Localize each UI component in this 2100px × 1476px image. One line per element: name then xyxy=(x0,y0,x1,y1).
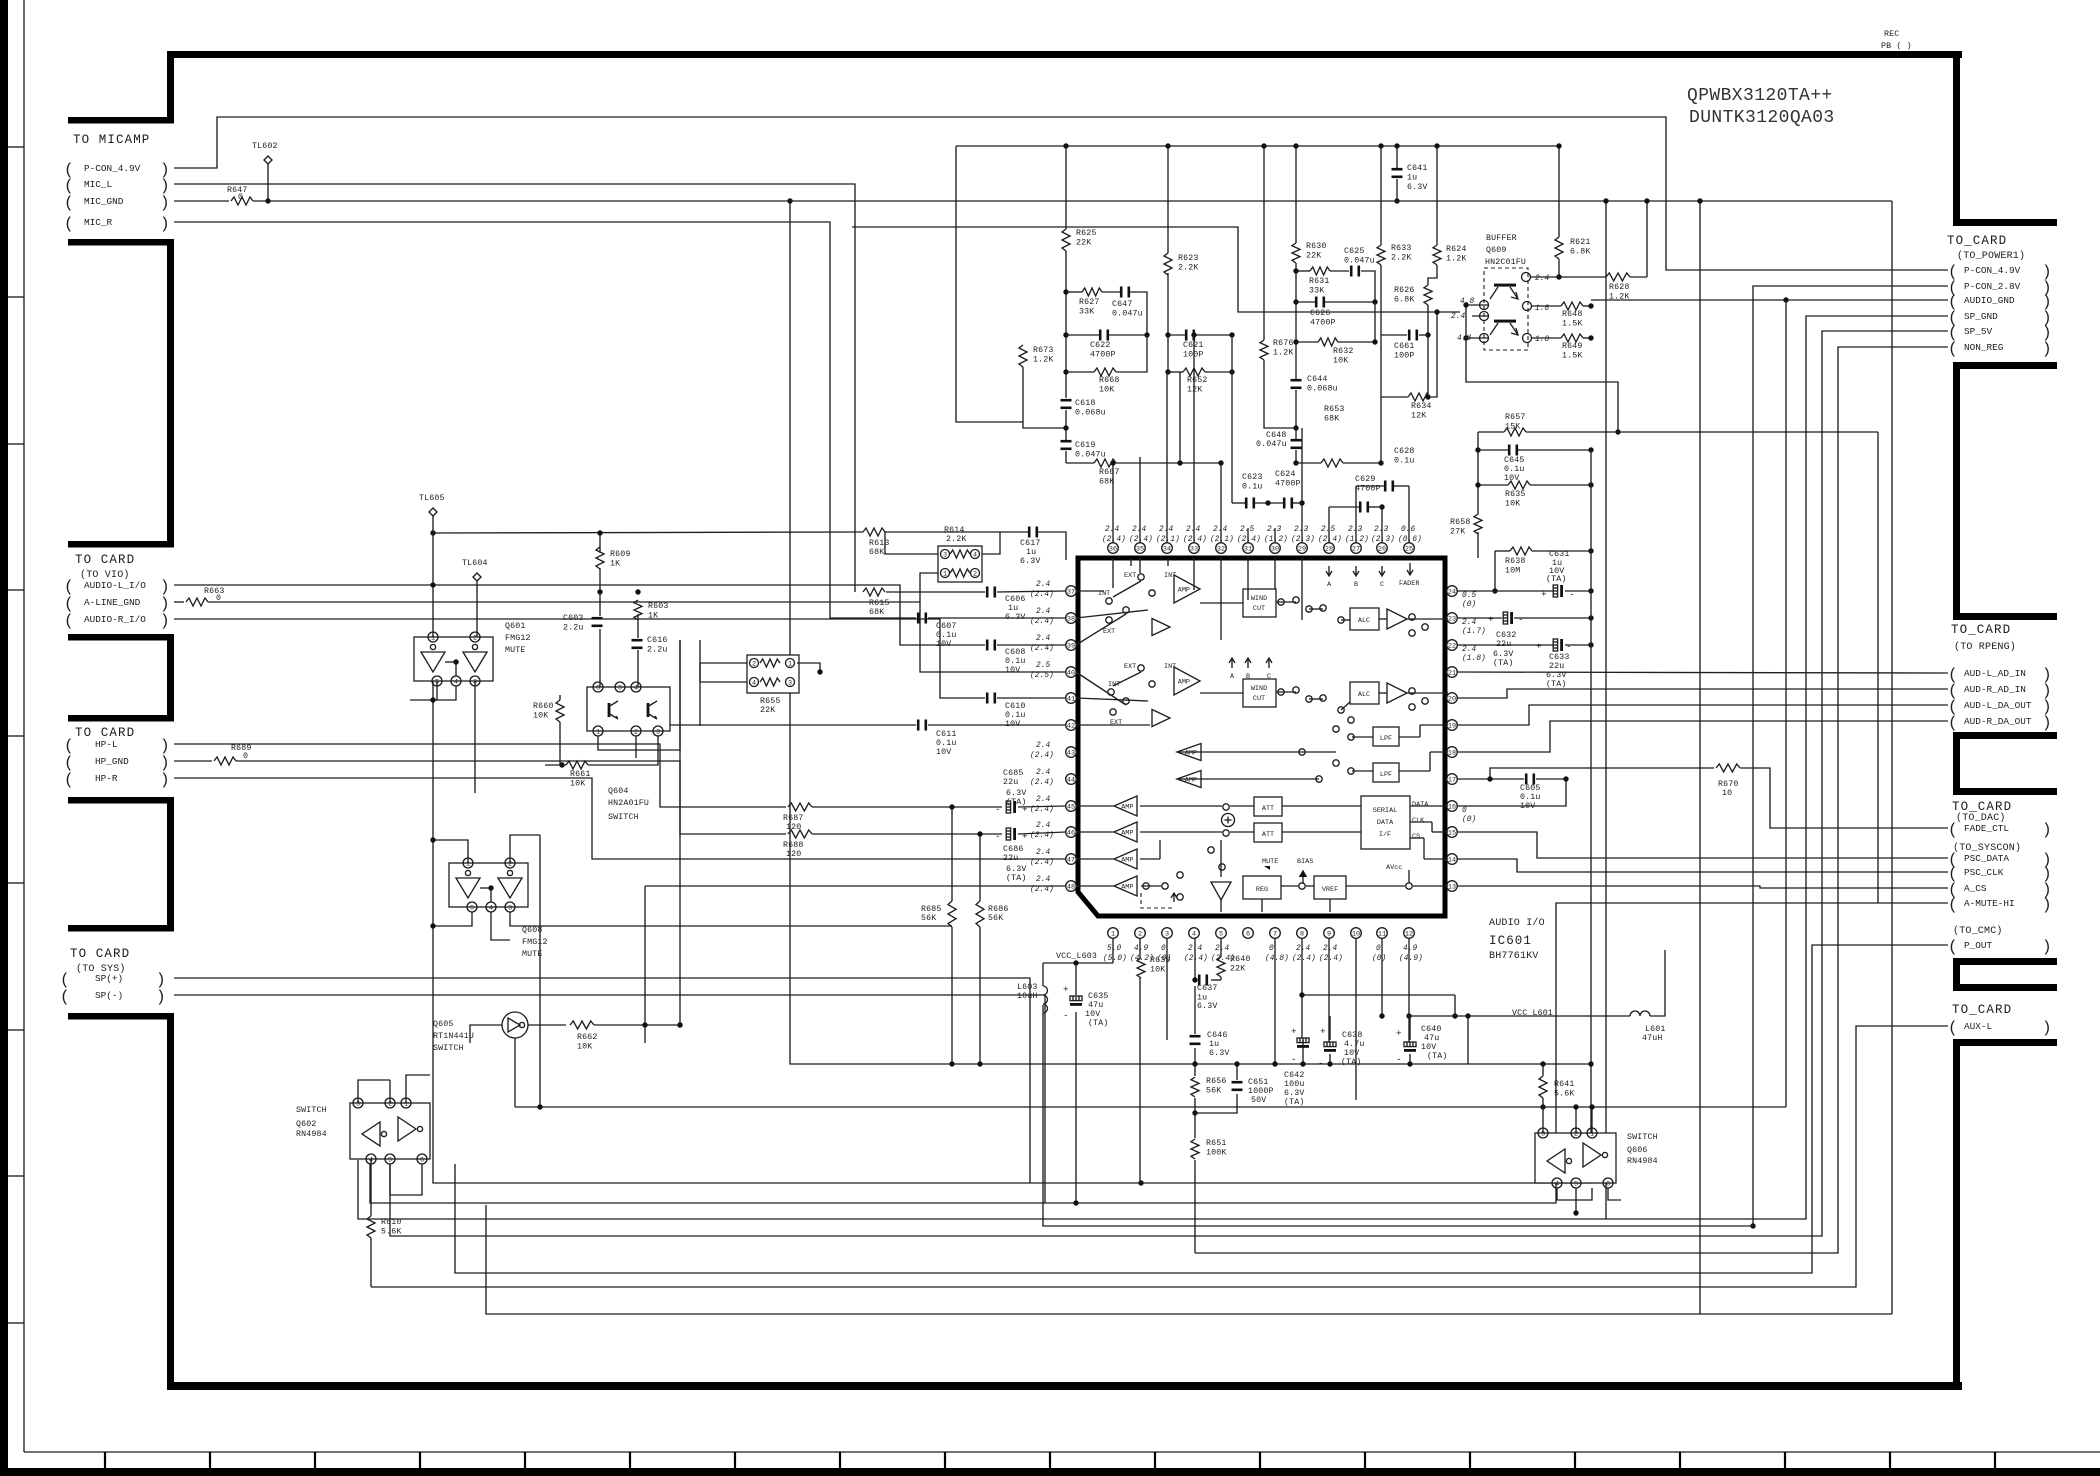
svg-text:HP-L: HP-L xyxy=(95,739,118,750)
svg-text:MIC_L: MIC_L xyxy=(84,179,113,190)
svg-text:22K: 22K xyxy=(1076,239,1091,248)
svg-text:(TA): (TA) xyxy=(1006,873,1027,883)
wire SP_5V vertical xyxy=(390,331,1948,1236)
svg-text:TL604: TL604 xyxy=(462,559,488,568)
svg-text:HN2A01FU: HN2A01FU xyxy=(608,799,649,808)
svg-text:22K: 22K xyxy=(760,706,775,715)
svg-text:31: 31 xyxy=(1244,545,1252,553)
svg-text:10K: 10K xyxy=(1333,357,1348,366)
svg-text:4.8: 4.8 xyxy=(1457,335,1472,343)
svg-text:6: 6 xyxy=(1246,930,1250,938)
resistor R632 xyxy=(1318,338,1338,346)
svg-text:4700P: 4700P xyxy=(1355,485,1381,494)
svg-text:+: + xyxy=(1536,641,1542,652)
IC601 signal labels A B C top xyxy=(1326,566,1332,576)
svg-text:): ) xyxy=(2042,938,2052,956)
capacitor C642 xyxy=(1297,1038,1309,1043)
mute pack Q601 xyxy=(414,637,493,681)
svg-text:15: 15 xyxy=(1448,829,1456,837)
capacitor C607 xyxy=(917,613,920,624)
svg-text:100P: 100P xyxy=(1394,352,1415,361)
svg-text:P-CON_2.8V: P-CON_2.8V xyxy=(1964,281,2021,292)
svg-text:10K: 10K xyxy=(1505,500,1520,509)
svg-text:CS: CS xyxy=(1412,833,1420,841)
svg-text:(2.1): (2.1) xyxy=(1156,536,1180,544)
frame right bar segments xyxy=(1953,51,1960,226)
capacitor C637 xyxy=(1198,975,1201,986)
svg-text:1: 1 xyxy=(404,1100,408,1108)
IC601 pin 12 xyxy=(1404,928,1415,939)
svg-text:(: ( xyxy=(64,194,74,212)
svg-text:R662: R662 xyxy=(577,1033,598,1042)
svg-text:): ) xyxy=(2042,821,2052,839)
resistor R633 xyxy=(1377,245,1385,265)
resistor R625 xyxy=(1062,229,1070,251)
IC601 block LPF 1 xyxy=(1373,727,1399,746)
svg-text:1.2K: 1.2K xyxy=(1033,356,1054,365)
svg-text:R685: R685 xyxy=(921,905,942,914)
resistor R663 xyxy=(186,598,208,606)
svg-text:R634: R634 xyxy=(1411,402,1432,411)
mute pack Q608 xyxy=(449,863,528,907)
svg-text:2.4: 2.4 xyxy=(1105,526,1120,534)
svg-text:Q602: Q602 xyxy=(296,1120,317,1129)
resistor R631 xyxy=(1310,267,1330,275)
svg-text:C632: C632 xyxy=(1496,631,1517,640)
svg-text:Q606: Q606 xyxy=(1627,1146,1648,1155)
wire Q605 area xyxy=(470,1025,502,1043)
svg-text:A_CS: A_CS xyxy=(1964,883,1987,894)
svg-text:(1.8): (1.8) xyxy=(1462,655,1486,663)
svg-text:(0.6): (0.6) xyxy=(1398,536,1422,544)
IC601 mute amp triangle xyxy=(1211,882,1231,900)
svg-text:9: 9 xyxy=(1327,930,1331,938)
svg-text:38: 38 xyxy=(1067,615,1075,623)
svg-text:2.4: 2.4 xyxy=(1535,275,1550,283)
svg-text:0.1u: 0.1u xyxy=(1005,657,1026,666)
IC601 pin 20 xyxy=(1447,693,1458,704)
svg-text:Q605: Q605 xyxy=(433,1020,454,1029)
svg-text:2: 2 xyxy=(634,728,638,736)
wire pin14 PSC_CLK xyxy=(1457,859,1948,872)
wire R613 row xyxy=(433,532,863,533)
resistor R641 xyxy=(1539,1076,1547,1098)
svg-text:2.5: 2.5 xyxy=(1321,526,1336,534)
svg-text:P-CON_4.9V: P-CON_4.9V xyxy=(1964,265,2021,276)
svg-text:5.0: 5.0 xyxy=(1107,945,1122,953)
svg-text:HN2C01FU: HN2C01FU xyxy=(1485,258,1526,267)
svg-text:3: 3 xyxy=(473,678,477,686)
svg-text:14: 14 xyxy=(1448,856,1456,864)
svg-text:1u: 1u xyxy=(1209,1040,1219,1049)
svg-text:5: 5 xyxy=(388,1156,392,1164)
svg-text:VCC_L603: VCC_L603 xyxy=(1056,952,1097,961)
svg-text:B: B xyxy=(1246,673,1250,681)
resistor R670 xyxy=(1716,764,1740,772)
svg-text:(2.4): (2.4) xyxy=(1030,752,1054,760)
svg-text:1.8: 1.8 xyxy=(1535,305,1550,313)
svg-text:AMP: AMP xyxy=(1178,587,1190,595)
svg-text:6.3V: 6.3V xyxy=(1006,789,1027,798)
svg-text:C633: C633 xyxy=(1549,653,1570,662)
wire HP-R to pin47 xyxy=(174,778,1066,859)
svg-text:0.047u: 0.047u xyxy=(1256,440,1287,449)
wire pin13 A_CS xyxy=(1457,886,1948,888)
svg-text:43: 43 xyxy=(1067,749,1075,757)
svg-text:(2.4): (2.4) xyxy=(1292,955,1316,963)
svg-text:68K: 68K xyxy=(869,608,884,617)
IC601 pin 3 xyxy=(1162,928,1173,939)
svg-text:10V: 10V xyxy=(1421,1043,1436,1052)
svg-text:C647: C647 xyxy=(1112,300,1133,309)
svg-text:0.1u: 0.1u xyxy=(936,631,957,640)
IC601 pin 38 xyxy=(1066,613,1077,624)
svg-text:ALC: ALC xyxy=(1358,691,1370,699)
svg-text:C635: C635 xyxy=(1088,992,1109,1001)
svg-text:10K: 10K xyxy=(577,1043,592,1052)
svg-text:HP-R: HP-R xyxy=(95,773,118,784)
resistor R609 xyxy=(596,547,604,569)
svg-text:C611: C611 xyxy=(936,730,957,739)
svg-text:(: ( xyxy=(1948,938,1958,956)
svg-text:0: 0 xyxy=(1161,945,1166,953)
resistor R660 xyxy=(556,700,564,722)
capacitor C611 xyxy=(917,720,920,731)
sheet border bottom bar xyxy=(0,1468,2100,1476)
wire R655 links xyxy=(700,662,747,664)
svg-text:(2.4): (2.4) xyxy=(1030,832,1054,840)
wire pin17 R670 FADE_CTL xyxy=(1457,778,1524,780)
svg-text:6.3V: 6.3V xyxy=(1546,671,1567,680)
svg-text:0.068u: 0.068u xyxy=(1075,409,1106,418)
svg-text:(4.9): (4.9) xyxy=(1399,955,1423,963)
capacitor C685 xyxy=(1006,801,1010,813)
cluster B R624 R626 C661 R634 xyxy=(1428,265,1437,285)
svg-text:): ) xyxy=(2042,714,2052,732)
svg-text:TO CARD: TO CARD xyxy=(70,947,130,961)
svg-text:C: C xyxy=(1380,581,1384,589)
svg-text:0.047u: 0.047u xyxy=(1112,310,1143,319)
svg-text:46: 46 xyxy=(1067,829,1075,837)
svg-text:120: 120 xyxy=(786,850,801,859)
svg-text:10V: 10V xyxy=(1520,802,1535,811)
svg-text:C618: C618 xyxy=(1075,399,1096,408)
svg-text:1: 1 xyxy=(943,570,947,578)
wire A-LINE_GND xyxy=(174,601,184,603)
IC601 amp after ALC 1 xyxy=(1387,609,1407,629)
svg-text:4: 4 xyxy=(489,904,493,912)
svg-text:2.2u: 2.2u xyxy=(647,646,668,655)
svg-text:25: 25 xyxy=(1405,545,1413,553)
svg-text:(2.4): (2.4) xyxy=(1030,886,1054,894)
svg-text:SP(+): SP(+) xyxy=(95,973,123,984)
IC601 pin 17 xyxy=(1447,774,1458,785)
svg-text:(TA): (TA) xyxy=(1546,679,1567,689)
svg-text:C625: C625 xyxy=(1344,247,1365,256)
svg-text:TO_CARD: TO_CARD xyxy=(1952,800,2012,814)
wire Q604 links xyxy=(599,533,601,553)
svg-text:R626: R626 xyxy=(1394,286,1415,295)
IC601 switch contacts xyxy=(1138,574,1144,580)
svg-text:33K: 33K xyxy=(1079,308,1094,317)
svg-text:(2.1): (2.1) xyxy=(1210,536,1234,544)
svg-text:C638: C638 xyxy=(1342,1031,1363,1040)
svg-text:32: 32 xyxy=(1217,545,1225,553)
IC601 pin 37 xyxy=(1066,586,1077,597)
svg-text:(: ( xyxy=(64,612,74,630)
svg-text:C624: C624 xyxy=(1275,470,1296,479)
IC601 pin 29 xyxy=(1297,543,1308,554)
svg-text:2: 2 xyxy=(1574,1130,1578,1138)
svg-text:22u: 22u xyxy=(1549,662,1564,671)
svg-text:47u: 47u xyxy=(1088,1001,1103,1010)
svg-text:(2.4): (2.4) xyxy=(1030,618,1054,626)
svg-text:SWITCH: SWITCH xyxy=(433,1044,464,1053)
svg-text:(: ( xyxy=(1948,896,1958,914)
IC601 pin 23 xyxy=(1447,613,1458,624)
svg-text:36: 36 xyxy=(1109,545,1117,553)
svg-text:): ) xyxy=(160,578,170,596)
svg-text:(2.4): (2.4) xyxy=(1030,859,1054,867)
svg-text:(0): (0) xyxy=(1372,955,1386,963)
VCC_L603 wires xyxy=(1043,962,1113,964)
svg-text:(: ( xyxy=(60,971,70,989)
IC601 pin 34 xyxy=(1162,543,1173,554)
wire R614 links xyxy=(885,532,938,554)
svg-text:VCC_L601: VCC_L601 xyxy=(1512,1009,1553,1018)
svg-text:SP_5V: SP_5V xyxy=(1964,326,1993,337)
svg-text:REC: REC xyxy=(1884,30,1899,39)
resistor R613 xyxy=(863,528,885,536)
svg-text:5: 5 xyxy=(435,678,439,686)
svg-text:R635: R635 xyxy=(1505,490,1526,499)
IC601 amp output 45 xyxy=(1114,796,1137,816)
svg-text:5.6K: 5.6K xyxy=(1554,1090,1575,1099)
svg-text:R641: R641 xyxy=(1554,1080,1575,1089)
wire SP_GND drop xyxy=(358,316,1948,1219)
IC601 block WIND CUT 1 xyxy=(1243,589,1276,617)
svg-text:R689: R689 xyxy=(231,744,252,753)
svg-text:2.4: 2.4 xyxy=(1215,945,1230,953)
IC601 pin 2 xyxy=(1135,928,1146,939)
svg-text:DATA: DATA xyxy=(1412,801,1429,809)
svg-text:0.1u: 0.1u xyxy=(1242,483,1263,492)
svg-text:4.9: 4.9 xyxy=(1134,945,1149,953)
svg-text:56K: 56K xyxy=(1206,1087,1221,1096)
svg-text:AMP: AMP xyxy=(1185,750,1197,758)
wire AUDIO_GND row xyxy=(1591,299,1948,301)
svg-text:EXT: EXT xyxy=(1103,628,1115,636)
transistor Q605 xyxy=(502,1012,528,1038)
svg-text:1: 1 xyxy=(1111,930,1115,938)
svg-text:2: 2 xyxy=(508,860,512,868)
svg-text:20: 20 xyxy=(1448,695,1456,703)
svg-text:2.4: 2.4 xyxy=(1462,646,1477,654)
svg-text:): ) xyxy=(2042,896,2052,914)
svg-text:6.3V: 6.3V xyxy=(1284,1089,1305,1098)
svg-text:R660: R660 xyxy=(533,702,554,711)
svg-text:(: ( xyxy=(60,988,70,1006)
svg-text:68K: 68K xyxy=(1099,478,1114,487)
svg-text:28: 28 xyxy=(1325,545,1333,553)
svg-text:5: 5 xyxy=(1574,1180,1578,1188)
svg-text:TO CARD: TO CARD xyxy=(75,553,135,567)
svg-text:AMP: AMP xyxy=(1121,830,1133,838)
svg-text:4700P: 4700P xyxy=(1275,480,1301,489)
svg-text:2.3: 2.3 xyxy=(1294,526,1309,534)
frame bottom edge xyxy=(167,1382,1962,1390)
capacitor C628 xyxy=(1384,481,1387,492)
svg-text:27: 27 xyxy=(1352,545,1360,553)
svg-text:INT: INT xyxy=(1164,572,1176,580)
svg-text:0: 0 xyxy=(238,193,243,202)
svg-text:2.4: 2.4 xyxy=(1036,769,1051,777)
wire SP(-) xyxy=(174,995,1045,1203)
svg-text:56K: 56K xyxy=(988,914,1003,923)
svg-text:FADE_CTL: FADE_CTL xyxy=(1964,823,2009,834)
frame top edge xyxy=(167,51,1962,58)
svg-text:8: 8 xyxy=(1300,930,1304,938)
svg-text:AUD-L_DA_OUT: AUD-L_DA_OUT xyxy=(1964,700,2032,711)
svg-text:VREF: VREF xyxy=(1322,886,1338,894)
svg-text:L601: L601 xyxy=(1645,1025,1666,1034)
sheet border left zone ticks xyxy=(8,146,24,148)
svg-text:SWITCH: SWITCH xyxy=(1627,1133,1658,1142)
svg-text:2.4: 2.4 xyxy=(1186,526,1201,534)
capacitor C618 xyxy=(1061,399,1072,402)
svg-text:TO_CARD: TO_CARD xyxy=(1952,1003,2012,1017)
svg-text:LPF: LPF xyxy=(1380,735,1392,743)
svg-text:CUT: CUT xyxy=(1253,605,1265,613)
resistor R634 xyxy=(1408,393,1430,401)
wire L601 top link xyxy=(1591,1107,1593,1133)
svg-text:SP(-): SP(-) xyxy=(95,990,123,1001)
svg-text:11: 11 xyxy=(1378,930,1386,938)
svg-text:BUFFER: BUFFER xyxy=(1486,234,1517,243)
svg-text:3: 3 xyxy=(656,728,660,736)
svg-text:10K: 10K xyxy=(570,780,585,789)
svg-text:0.047u: 0.047u xyxy=(1344,257,1375,266)
svg-text:42: 42 xyxy=(1067,722,1075,730)
svg-text:40: 40 xyxy=(1067,669,1075,677)
svg-text:(: ( xyxy=(64,215,74,233)
capacitor C606 xyxy=(986,587,989,598)
svg-text:A-MUTE-HI: A-MUTE-HI xyxy=(1964,898,2015,909)
IC601 amp output 44 xyxy=(1177,771,1201,788)
svg-text:(: ( xyxy=(1948,340,1958,358)
svg-text:DUNTK3120QA03: DUNTK3120QA03 xyxy=(1689,108,1835,128)
resistor R624 xyxy=(1433,245,1441,265)
capacitor C641 xyxy=(1392,168,1403,171)
wire pin15 PSC_DATA xyxy=(1457,832,1948,858)
wire C628 row xyxy=(1356,485,1384,487)
wire TL604 drop xyxy=(476,581,478,637)
svg-text:C645: C645 xyxy=(1504,456,1525,465)
svg-text:REG: REG xyxy=(1256,886,1268,894)
svg-text:): ) xyxy=(156,971,166,989)
svg-text:): ) xyxy=(160,177,170,195)
svg-text:INT: INT xyxy=(1164,663,1176,671)
svg-text:C648: C648 xyxy=(1266,431,1287,440)
IC601 pin 24 xyxy=(1447,586,1458,597)
wire TL605 drop xyxy=(433,516,1591,1183)
svg-text:PSC_DATA: PSC_DATA xyxy=(1964,853,2009,864)
IC601 block REG xyxy=(1243,876,1281,899)
wire pin18 AUD-R_DA_OUT xyxy=(1457,721,1948,752)
svg-text:(TA): (TA) xyxy=(1493,658,1514,668)
svg-text:C610: C610 xyxy=(1005,702,1026,711)
IC601 pin 30 xyxy=(1270,543,1281,554)
svg-text:(2.4): (2.4) xyxy=(1030,591,1054,599)
IC601 pin 43 xyxy=(1066,747,1077,758)
resistor R635 xyxy=(1508,481,1530,489)
IC601 amp aux 1 xyxy=(1152,619,1170,636)
svg-text:NON_REG: NON_REG xyxy=(1964,342,2004,353)
wire Q602 links xyxy=(358,1080,390,1103)
buffer Q609 dashed outline xyxy=(1484,268,1528,350)
svg-text:BH7761KV: BH7761KV xyxy=(1489,951,1539,962)
svg-text:R609: R609 xyxy=(610,550,631,559)
svg-text:22K: 22K xyxy=(1230,965,1245,974)
svg-text:SERIAL: SERIAL xyxy=(1373,807,1397,815)
svg-text:2.4: 2.4 xyxy=(1036,849,1051,857)
capacitor C610 xyxy=(986,693,989,704)
wire A-MUTE-HI drop xyxy=(370,903,1948,1203)
wire VCC_L601 bus xyxy=(1409,1015,1630,1017)
svg-text:C608: C608 xyxy=(1005,648,1026,657)
svg-text:R640: R640 xyxy=(1230,955,1251,964)
svg-text:C603: C603 xyxy=(563,614,584,623)
IC601 pin 15 xyxy=(1447,827,1458,838)
svg-text:0.1u: 0.1u xyxy=(936,739,957,748)
svg-text:37: 37 xyxy=(1067,588,1075,596)
svg-text:AUDIO I/O: AUDIO I/O xyxy=(1489,917,1545,929)
svg-text:(0): (0) xyxy=(1462,601,1476,609)
svg-text:6: 6 xyxy=(420,1156,424,1164)
svg-text:(: ( xyxy=(1948,1019,1958,1037)
resistor R647 xyxy=(231,197,253,205)
svg-text:PSC_CLK: PSC_CLK xyxy=(1964,867,2004,878)
svg-text:13: 13 xyxy=(1448,883,1456,891)
IC601 pin 18 xyxy=(1447,747,1458,758)
frame right bay caps xyxy=(1953,219,2057,226)
svg-text:6.3V: 6.3V xyxy=(1005,613,1026,622)
svg-text:10V: 10V xyxy=(1344,1049,1359,1058)
svg-text:RN4984: RN4984 xyxy=(1627,1157,1658,1166)
svg-text:3: 3 xyxy=(943,551,947,559)
IC601 pin 1 xyxy=(1108,928,1119,939)
sheet border left bar xyxy=(0,0,8,1476)
svg-text:2.2K: 2.2K xyxy=(1391,254,1412,263)
resistor R639 xyxy=(1137,958,1145,978)
IC601 pin 6 xyxy=(1243,928,1254,939)
resistor R640 xyxy=(1217,957,1225,977)
switch pack Q604 xyxy=(587,687,670,731)
wire C623 C624 row xyxy=(1232,502,1245,504)
svg-text:(TO_CMC): (TO_CMC) xyxy=(1953,925,2003,937)
svg-text:(TA): (TA) xyxy=(1341,1057,1362,1067)
svg-text:0.1u: 0.1u xyxy=(1520,793,1541,802)
wire HP-L to pin45 xyxy=(174,744,786,807)
frame left bay caps xyxy=(68,117,174,124)
svg-text:R676: R676 xyxy=(1273,339,1294,348)
IC601 block ATT 1 xyxy=(1254,797,1282,816)
svg-text:(2.5): (2.5) xyxy=(1030,672,1054,680)
sheet border left zone line xyxy=(23,0,25,1452)
svg-text:R638: R638 xyxy=(1505,557,1526,566)
svg-text:R651: R651 xyxy=(1206,1139,1227,1148)
svg-text:50V: 50V xyxy=(1251,1096,1266,1105)
